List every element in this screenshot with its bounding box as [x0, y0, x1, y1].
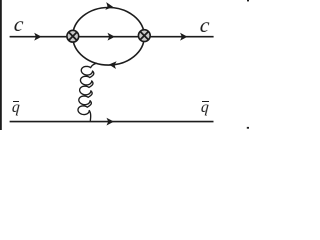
arrow on incoming c line — [34, 33, 41, 41]
label c (outgoing quark) — [199, 15, 210, 36]
label qbar (right) — [201, 100, 210, 116]
left operator vertex (crossed circle) — [67, 30, 79, 42]
left border line — [0, 0, 2, 130]
gluon propagator — [78, 63, 97, 121]
arrow on antiquark line — [107, 118, 114, 126]
wire: antiquark bottom line — [10, 121, 214, 123]
arrow on bottom loop arc — [109, 61, 117, 69]
arrow on top loop arc — [105, 2, 113, 11]
label qbar (left) — [12, 100, 21, 116]
arrow on internal line between vertices — [108, 33, 115, 41]
stray ink top-right corner — [247, 0, 249, 1]
quark loop ellipse — [73, 8, 145, 66]
wire: c-quark top line — [10, 36, 214, 38]
right operator vertex (crossed circle) — [138, 30, 150, 42]
arrow on outgoing c line — [180, 33, 187, 41]
label c (incoming quark) — [13, 14, 24, 35]
stray ink bottom-right corner — [247, 127, 249, 129]
